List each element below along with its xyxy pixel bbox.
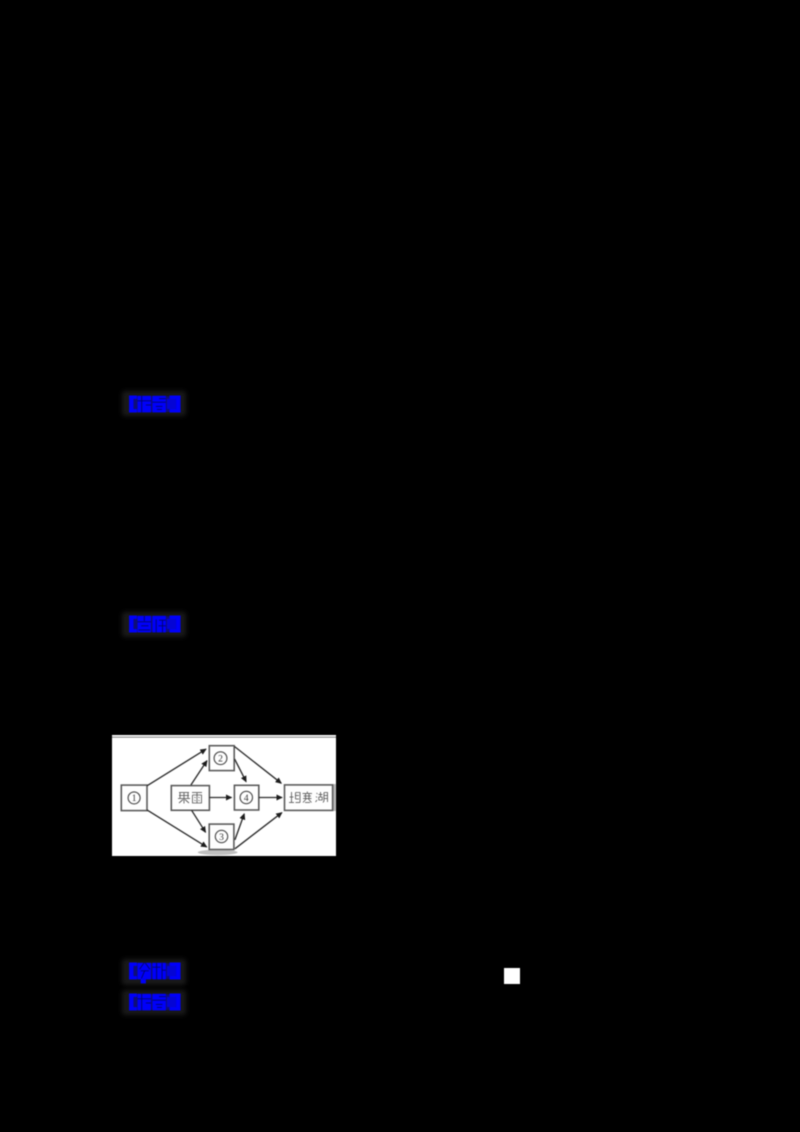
svg-text:2: 2 (218, 755, 223, 765)
svg-text:4: 4 (244, 794, 249, 804)
svg-text:1: 1 (132, 794, 137, 804)
svg-text:3: 3 (219, 833, 224, 843)
